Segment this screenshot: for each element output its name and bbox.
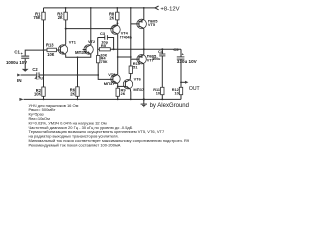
node R3 top rail: [65, 7, 67, 9]
resistor R13: [44, 43, 61, 57]
svg-text:C4: C4: [158, 49, 164, 54]
svg-text:by AlexGround: by AlexGround: [150, 103, 189, 109]
wire VT6 collector: [129, 73, 132, 79]
svg-text:51: 51: [133, 65, 138, 70]
svg-text:МП37: МП37: [75, 50, 87, 55]
wire output: [181, 81, 185, 83]
svg-text:2К: 2К: [109, 15, 114, 20]
svg-text:VT5: VT5: [148, 22, 156, 27]
svg-text:Рекомендуемый ток покоя состав: Рекомендуемый ток покоя составляет 100-2…: [29, 142, 121, 147]
resistor R11: [153, 87, 164, 99]
transistor VT2: [83, 39, 96, 55]
svg-text:VT6: VT6: [134, 77, 142, 82]
wire ground rail: [24, 98, 181, 100]
node A bias divider: [43, 49, 45, 51]
resistor R6: [70, 87, 79, 100]
svg-text:OUT: OUT: [189, 86, 200, 92]
transistor VT7: [137, 54, 157, 64]
svg-text:10: 10: [156, 91, 160, 95]
node output C5 R12: [180, 81, 182, 83]
capacitor C4: [152, 49, 165, 88]
resistor R1: [33, 8, 45, 50]
svg-text:10К: 10К: [47, 52, 55, 57]
wire driver vertical: [131, 8, 137, 66]
wire VT2 collector: [90, 8, 92, 44]
transistor VT1: [58, 40, 76, 55]
wire emitters U: [66, 55, 91, 58]
svg-text:75К: 75К: [101, 59, 108, 64]
svg-text:VT2: VT2: [88, 39, 96, 44]
node ground VT7: [143, 98, 145, 100]
wire input to feedback node: [39, 74, 98, 76]
resistor R2: [34, 87, 45, 99]
svg-text:2К: 2К: [70, 92, 75, 97]
svg-text:500u: 500u: [152, 57, 160, 61]
capacitor C1: [6, 49, 44, 71]
node VT3 emitter R9 VT6 base: [117, 86, 119, 88]
resistor R3: [57, 8, 67, 20]
svg-text:10: 10: [174, 91, 178, 95]
node ground R11: [161, 99, 163, 101]
transistor VT4: [111, 25, 133, 40]
svg-text:R13: R13: [46, 43, 54, 48]
node input emitter drop: [77, 74, 79, 76]
svg-text:+: +: [21, 51, 24, 56]
label notes block: [29, 103, 190, 148]
node VT4 collector driver: [117, 56, 119, 58]
svg-text:+8-12V: +8-12V: [160, 7, 179, 13]
svg-text:R5: R5: [101, 43, 107, 48]
node VT4 emitter: [117, 23, 119, 25]
svg-text:C5: C5: [173, 47, 179, 52]
svg-text:1000u 10V: 1000u 10V: [6, 60, 27, 65]
resistor R4: [97, 56, 113, 80]
wire VT5 emitter: [143, 29, 145, 50]
node driver junction: [130, 56, 132, 58]
wire VT7 collector: [143, 49, 145, 54]
ground symbol: [141, 99, 147, 106]
wire VT5 collector: [143, 8, 145, 19]
svg-text:IN: IN: [17, 78, 22, 83]
terminal IN arrow: [17, 74, 20, 77]
node ground R9: [117, 99, 119, 101]
wire input: [21, 74, 37, 76]
node R5 output rail: [113, 48, 115, 50]
wire bias vertical: [43, 50, 45, 87]
resistor R8: [109, 8, 119, 26]
node VT5 collector rail: [143, 7, 145, 9]
node VT1 collector to VT4 base: [65, 28, 67, 30]
wire VT1 collector: [65, 20, 67, 44]
svg-text:МП37: МП37: [133, 87, 144, 92]
transistor VT3: [104, 72, 120, 86]
wire driver to R10 line: [118, 56, 131, 58]
resistor R9: [116, 87, 126, 99]
wire VT7 emitter: [143, 64, 145, 100]
svg-text:330u 10V: 330u 10V: [177, 59, 198, 64]
wire output rail: [114, 48, 181, 50]
node ground VT6: [130, 99, 132, 101]
terminal ground rail arrow: [19, 98, 23, 101]
resistor R5: [98, 43, 114, 57]
svg-text:+: +: [182, 53, 185, 57]
capacitor C5: [173, 47, 197, 82]
resistor R10: [129, 61, 141, 74]
node input R2: [43, 74, 45, 76]
svg-text:2К: 2К: [121, 91, 126, 96]
transistor VT6: [123, 77, 145, 92]
capacitor C3: [98, 31, 114, 49]
node driver line rail: [130, 7, 132, 9]
svg-text:2К: 2К: [58, 15, 63, 20]
svg-text:VT1: VT1: [69, 40, 77, 45]
wire VT1 collector to VT4 base: [66, 28, 113, 30]
svg-text:C2: C2: [32, 67, 38, 72]
node VT2 collector rail: [90, 7, 92, 9]
wire emitters to R6: [77, 57, 79, 87]
wire VT4 collector down: [117, 34, 119, 74]
node ground R6: [77, 99, 79, 101]
wire VT3 emitter to VT6 base: [118, 85, 126, 87]
wire C3 R5 left branch: [97, 38, 99, 56]
svg-text:4.7u: 4.7u: [35, 76, 44, 81]
resistor R12: [172, 82, 183, 99]
transistor VT5: [137, 18, 158, 28]
wire VT6 emitter: [129, 89, 132, 100]
wire VT7 base: [131, 58, 139, 60]
node output rail VT5 emitter: [143, 48, 145, 50]
terminal OUT arrow: [185, 81, 188, 84]
node output rail C4: [161, 48, 163, 50]
svg-text:10К: 10К: [34, 92, 42, 97]
node input R4: [97, 74, 99, 76]
terminal +8-12V arrow: [155, 6, 159, 10]
wire VT3 emitter: [117, 84, 119, 89]
svg-text:VT3: VT3: [108, 72, 116, 77]
node emitters: [77, 56, 79, 58]
svg-text:C3: C3: [100, 31, 106, 36]
wire top +V rail: [44, 7, 156, 9]
svg-text:МП37: МП37: [104, 81, 115, 86]
capacitor C2: [32, 67, 43, 80]
node ground R2: [43, 99, 45, 101]
node R8 top rail: [116, 7, 118, 9]
svg-text:75К: 75К: [33, 15, 41, 20]
